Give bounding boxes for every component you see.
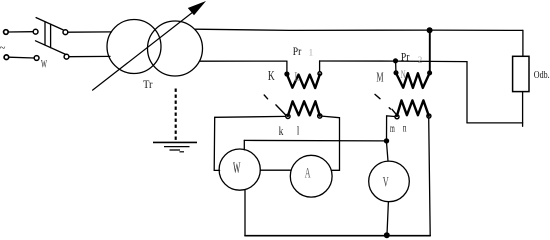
svg-text:m: m [390, 121, 395, 135]
rheostat Pr1 terminal k [286, 114, 290, 118]
rheostat Pr2 lower winding [397, 100, 429, 116]
earth connection dashed wire [175, 89, 177, 142]
supply terminal X1 [4, 30, 9, 35]
svg-text:L: L [294, 69, 299, 84]
svg-text:Odb.: Odb. [534, 69, 550, 81]
wire potential lead [244, 139, 386, 142]
ground symbol [153, 142, 197, 151]
svg-text:N: N [401, 67, 406, 81]
voltmeter V [369, 161, 410, 202]
wire [319, 61, 321, 72]
autotransformer Tr winding 2 [148, 21, 203, 76]
wire [69, 55, 110, 57]
wire [243, 140, 245, 150]
wire [244, 190, 246, 236]
junction node [384, 232, 390, 238]
wire [8, 31, 32, 33]
switch W pole 1 [33, 18, 68, 35]
wire [387, 202, 388, 235]
rheostat Pr1 terminal K dot [284, 71, 289, 76]
svg-text:Pr: Pr [293, 44, 302, 58]
wire [467, 122, 523, 124]
rheostat Pr1 lower winding [288, 101, 320, 116]
wire [213, 117, 216, 170]
wire [339, 118, 341, 171]
rheostat Pr2 upper winding [396, 73, 430, 88]
ammeter A [290, 155, 332, 197]
wire [387, 116, 395, 141]
wire [260, 169, 291, 171]
svg-text:Pr: Pr [401, 50, 410, 64]
wire [522, 92, 524, 127]
wire (top line) [196, 29, 523, 30]
switch W coupling bar [45, 22, 51, 48]
wire [429, 118, 431, 236]
variac adjustment arrow [93, 1, 206, 90]
wire [214, 169, 219, 171]
wire [331, 169, 339, 171]
supply terminal X2 [4, 55, 9, 60]
switch W pole 2 [34, 41, 69, 61]
svg-text:~: ~ [0, 42, 6, 54]
rheostat Pr1 upper winding [287, 74, 320, 88]
wattmeter W [219, 149, 260, 190]
svg-text:W: W [233, 160, 241, 177]
rheostat Pr1 terminal l [318, 114, 322, 118]
wire [322, 116, 340, 118]
wire [522, 30, 524, 56]
wire [215, 115, 286, 118]
rheostat Pr2 terminal m [395, 115, 399, 119]
autotransformer Tr winding 1 [107, 20, 161, 74]
svg-text:A: A [305, 165, 311, 181]
svg-text:Tr: Tr [143, 77, 153, 91]
wire [466, 62, 468, 123]
wiper arrow Pr1 [264, 95, 286, 115]
svg-text:K: K [268, 69, 275, 84]
load resistor Odb. [513, 56, 529, 91]
wire [286, 61, 288, 72]
rheostat Pr2 terminal N2 [428, 71, 432, 75]
svg-text:W: W [41, 57, 47, 71]
svg-text:n: n [403, 120, 407, 134]
svg-text:M: M [376, 71, 384, 86]
rheostat Pr2 terminal n [427, 114, 431, 118]
wire [200, 60, 287, 62]
wire [395, 61, 397, 71]
wire [9, 56, 34, 59]
wire [68, 31, 112, 33]
wire [429, 30, 431, 71]
wiper arrow Pr2 [375, 94, 397, 115]
rheostat Pr2 terminal N [394, 71, 398, 75]
wire [387, 144, 388, 162]
svg-text:1: 1 [309, 48, 314, 58]
svg-text:k: k [279, 123, 284, 138]
svg-text:l: l [297, 122, 300, 137]
svg-text:2: 2 [418, 55, 423, 65]
junction node on top line [427, 27, 433, 33]
svg-text:V: V [383, 175, 389, 191]
wire bottom bus [245, 235, 430, 237]
rheostat Pr1 terminal L circle [318, 72, 322, 76]
junction node [384, 138, 389, 143]
junction node on lower line [393, 58, 398, 63]
wire [320, 60, 467, 63]
